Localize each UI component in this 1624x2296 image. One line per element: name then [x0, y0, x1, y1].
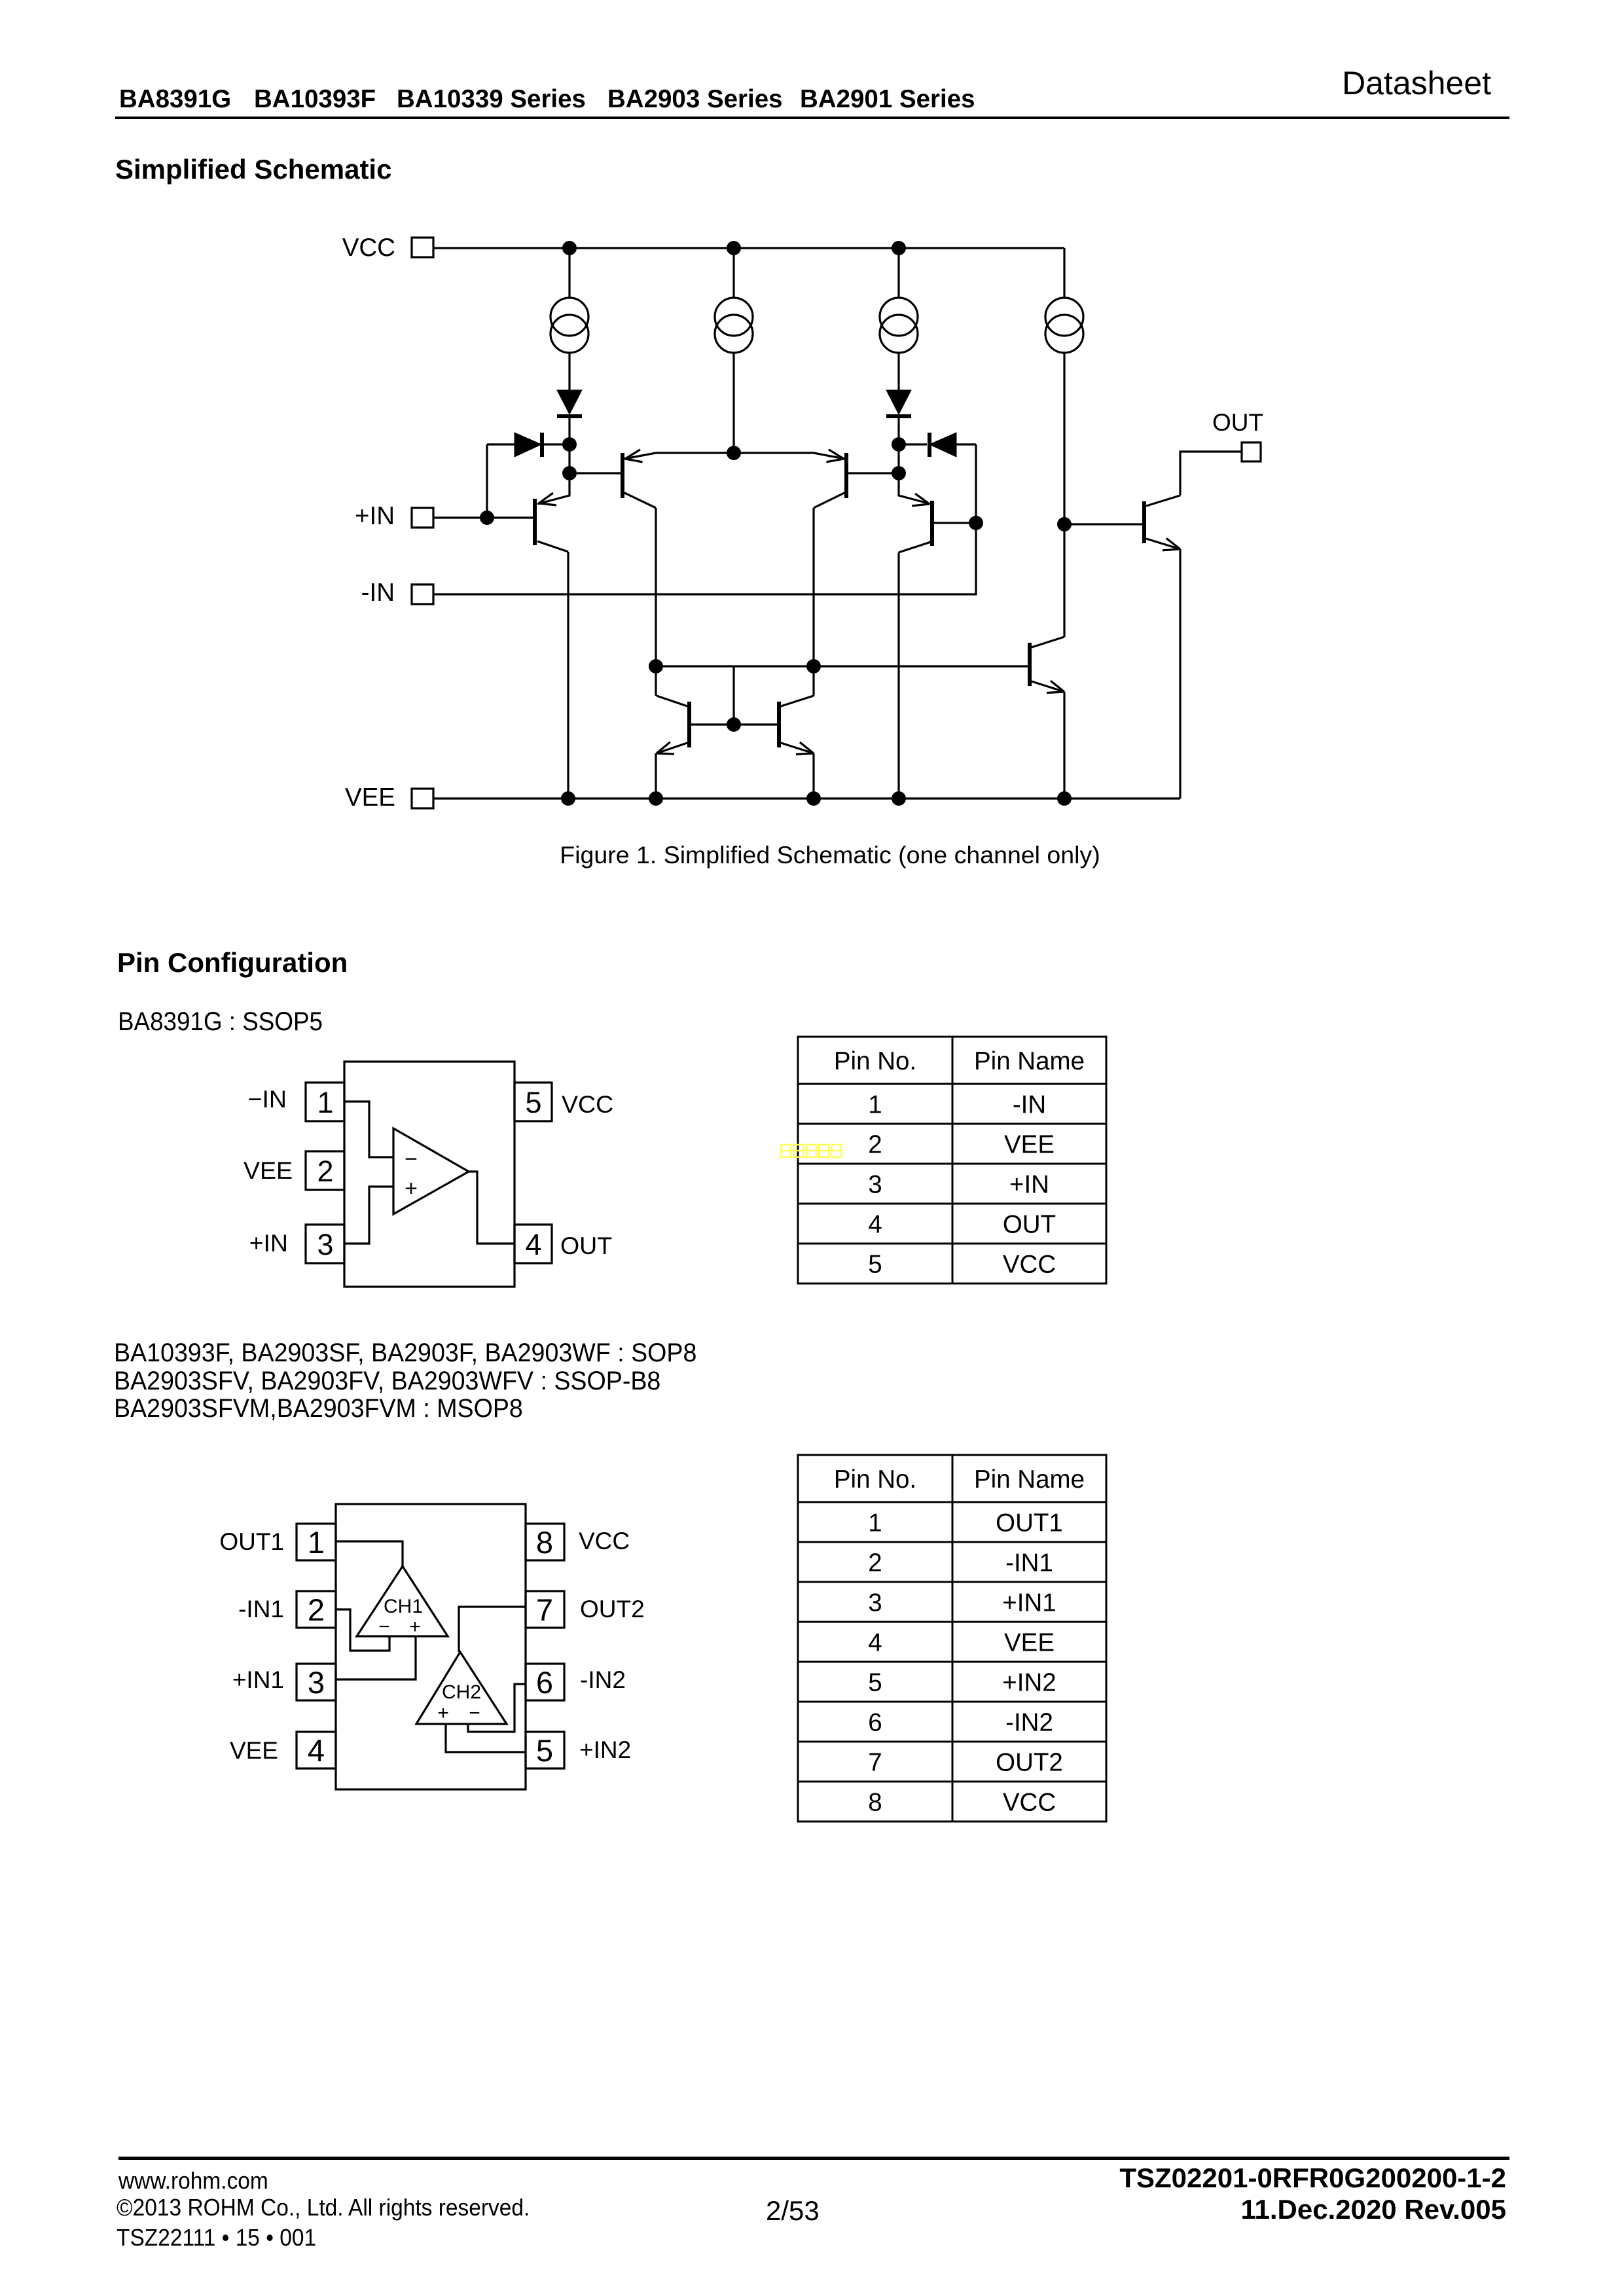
- pin 2 box: [306, 1151, 344, 1190]
- wire Q8 emitter: [1179, 549, 1181, 798]
- pin table row 2 VEE: [798, 1130, 1106, 1164]
- svg-text:5: 5: [525, 1086, 541, 1119]
- svg-text:Pin Name: Pin Name: [974, 1047, 1085, 1075]
- pin table row 1 OUT1: [798, 1509, 1106, 1542]
- op-amp CH1: [357, 1566, 448, 1638]
- svg-text:-IN1: -IN1: [238, 1596, 284, 1623]
- wire I1 top: [568, 248, 570, 298]
- footer www.rohm.com: [118, 2169, 268, 2193]
- svg-text:−: −: [378, 1616, 390, 1638]
- wire pin7 to CH2 output: [459, 1607, 526, 1652]
- svg-text:4: 4: [868, 1628, 882, 1657]
- terminal -IN: [361, 579, 433, 607]
- watermark: [781, 1145, 842, 1157]
- terminal VCC: [342, 234, 433, 262]
- svg-text:VCC: VCC: [562, 1090, 613, 1118]
- pin 5 box: [526, 1732, 564, 1768]
- svg-text:+: +: [409, 1616, 421, 1638]
- pin 3 box: [297, 1664, 336, 1700]
- wire Q8 base: [1064, 523, 1142, 525]
- wire Q2 collector: [655, 508, 657, 666]
- node -IN junction: [969, 516, 983, 530]
- svg-text:CH1: CH1: [384, 1596, 423, 1617]
- pin table column divider: [952, 1455, 954, 1821]
- wire Q3 emitter: [734, 452, 814, 454]
- svg-text:OUT: OUT: [1003, 1210, 1056, 1238]
- svg-text:OUT2: OUT2: [996, 1748, 1063, 1776]
- svg-text:5: 5: [868, 1668, 882, 1696]
- diode D2: [899, 433, 976, 457]
- node VEE-4: [892, 791, 906, 806]
- wire +IN to Q1 base: [433, 516, 533, 518]
- svg-text:+IN: +IN: [249, 1229, 288, 1257]
- svg-text:VEE: VEE: [1004, 1628, 1055, 1657]
- node +IN junction: [480, 511, 494, 525]
- svg-text:7: 7: [868, 1748, 882, 1776]
- wire Q5 collector: [655, 666, 657, 696]
- node VEE-3: [806, 791, 821, 806]
- node VCC-I2: [727, 241, 741, 255]
- svg-text:Figure 1. Simplified Schematic: Figure 1. Simplified Schematic (one chan…: [560, 841, 1100, 869]
- svg-text:1: 1: [308, 1525, 325, 1560]
- svg-text:-IN: -IN: [361, 579, 395, 607]
- transistor Q1: [533, 473, 569, 552]
- svg-text:2: 2: [868, 1130, 882, 1158]
- svg-text:3: 3: [868, 1588, 882, 1617]
- svg-text:OUT: OUT: [560, 1232, 612, 1259]
- wire I4 down: [1063, 352, 1065, 525]
- wire I3 to D4: [897, 352, 899, 391]
- wire pin3 to non-inverting input: [344, 1187, 393, 1244]
- svg-text:+IN2: +IN2: [579, 1736, 631, 1763]
- pin table row 5 +IN2: [798, 1668, 1106, 1702]
- pin 7 box: [526, 1591, 564, 1628]
- wire Q6 emitter: [812, 753, 814, 798]
- svg-text:2: 2: [317, 1155, 333, 1188]
- transistor Q5: [657, 696, 691, 754]
- pin table column divider: [952, 1037, 954, 1283]
- svg-text:4: 4: [525, 1228, 541, 1261]
- svg-text:3: 3: [308, 1665, 325, 1700]
- wire Q2 emitter: [656, 452, 734, 454]
- wire Q7 collector: [1063, 524, 1065, 637]
- transistor Q8: [1142, 495, 1180, 550]
- svg-text:6: 6: [868, 1708, 882, 1736]
- pin table header row: [798, 1465, 1106, 1502]
- wire pin5 to CH2 non-inverting: [446, 1724, 526, 1752]
- node C emitters: [727, 446, 741, 460]
- svg-text:8: 8: [536, 1525, 553, 1560]
- svg-text:+: +: [437, 1702, 449, 1724]
- svg-text:+IN1: +IN1: [232, 1666, 284, 1693]
- node A: [562, 437, 577, 452]
- diode D4: [886, 390, 911, 416]
- svg-text:5: 5: [536, 1733, 553, 1768]
- pin table row 3 +IN1: [798, 1588, 1106, 1622]
- current source I1: [550, 298, 588, 353]
- wire Q3 base: [848, 472, 899, 474]
- node VCC-I1: [562, 241, 577, 255]
- terminal VEE: [345, 783, 433, 812]
- node VEE-5: [1057, 791, 1072, 806]
- svg-text:CH2: CH2: [442, 1681, 481, 1703]
- svg-text:1: 1: [868, 1090, 882, 1119]
- diode D3: [557, 390, 582, 416]
- footer TSZ22111: [117, 2226, 316, 2250]
- pin table row 1 -IN: [798, 1090, 1106, 1124]
- pin 3 box: [306, 1225, 344, 1263]
- svg-text:VCC: VCC: [1003, 1250, 1056, 1278]
- pin table border: [798, 1037, 1106, 1283]
- svg-text:+: +: [405, 1176, 418, 1201]
- svg-text:2: 2: [868, 1549, 882, 1577]
- svg-text:VCC: VCC: [342, 234, 395, 262]
- svg-text:Pin Name: Pin Name: [974, 1465, 1085, 1494]
- wire -IN: [433, 523, 976, 594]
- svg-text:OUT1: OUT1: [219, 1528, 284, 1555]
- wire Q1 collector to VEE: [567, 552, 569, 798]
- svg-text:−IN: −IN: [248, 1085, 287, 1113]
- svg-text:8: 8: [868, 1788, 882, 1816]
- node H: [806, 659, 821, 673]
- pin 4 box: [297, 1732, 336, 1768]
- node VEE-2: [649, 791, 663, 806]
- op-amp CH2: [416, 1652, 507, 1724]
- transistor Q2: [621, 450, 656, 508]
- pin 8 box: [526, 1524, 564, 1560]
- svg-text:1: 1: [317, 1086, 333, 1119]
- svg-text:−: −: [405, 1147, 418, 1172]
- wire pin3 to CH1 non-inverting: [336, 1636, 416, 1679]
- header part numbers: [119, 87, 231, 113]
- svg-text:-IN2: -IN2: [580, 1666, 626, 1693]
- svg-text:7: 7: [536, 1592, 553, 1627]
- node VCC-I3: [892, 241, 906, 255]
- pin table row 5 VCC: [868, 1250, 1056, 1278]
- pin 5 box: [514, 1083, 552, 1121]
- header Datasheet: [1342, 67, 1491, 99]
- wire I3 top: [897, 248, 899, 298]
- wire Q3 collector: [812, 508, 814, 666]
- svg-text:6: 6: [536, 1665, 553, 1700]
- current source I2: [715, 298, 753, 353]
- current source I3: [880, 298, 918, 353]
- svg-text:Pin No.: Pin No.: [834, 1047, 916, 1075]
- pin table row 7 OUT2: [798, 1748, 1106, 1782]
- wire pin6 to CH2 inverting: [468, 1684, 526, 1732]
- footer revision: [1240, 2196, 1506, 2223]
- package body SOP8: [336, 1504, 526, 1789]
- footer page number: [766, 2197, 820, 2225]
- wire Q4 base: [934, 522, 976, 524]
- wire Q4 collector to VEE: [897, 552, 899, 798]
- wire D3 to node A: [568, 416, 570, 473]
- node G: [649, 659, 663, 673]
- node F: [1057, 517, 1072, 531]
- svg-text:2: 2: [308, 1592, 325, 1627]
- wire Q6 collector: [812, 666, 814, 696]
- op-amp U1: [393, 1128, 469, 1214]
- footer doc number: [1119, 2164, 1506, 2192]
- node E: [892, 466, 906, 480]
- wire Q2 base: [569, 472, 621, 474]
- pin 1 box: [297, 1524, 336, 1560]
- node D: [892, 437, 906, 452]
- pin table border: [798, 1455, 1106, 1821]
- svg-text:-IN: -IN: [1013, 1090, 1046, 1119]
- svg-text:+IN2: +IN2: [1002, 1668, 1056, 1696]
- svg-text:Pin No.: Pin No.: [834, 1465, 916, 1494]
- svg-text:-IN1: -IN1: [1005, 1549, 1053, 1577]
- pin table row 6 -IN2: [798, 1708, 1106, 1742]
- transistor Q7: [1028, 637, 1064, 693]
- current source I4: [1045, 298, 1083, 353]
- footer rule: [118, 2157, 1509, 2160]
- transistor Q6: [777, 696, 814, 755]
- pin table row 8 VCC: [868, 1788, 1056, 1816]
- wire D1 anode to +IN: [486, 444, 488, 518]
- svg-text:VEE: VEE: [244, 1157, 293, 1184]
- wire mirror collector left: [656, 665, 814, 667]
- wire VEE rail: [433, 797, 1180, 799]
- svg-text:VEE: VEE: [1004, 1130, 1055, 1158]
- pin table row 3 +IN: [798, 1170, 1106, 1204]
- svg-text:4: 4: [308, 1733, 325, 1768]
- header rule: [115, 117, 1509, 119]
- svg-text:+IN: +IN: [355, 502, 395, 530]
- svg-text:5: 5: [868, 1250, 882, 1278]
- wire VCC rail: [433, 247, 1064, 249]
- pin table row 2 -IN1: [798, 1549, 1106, 1582]
- wire mirror base link: [691, 723, 777, 725]
- wire D4 to node D: [897, 416, 899, 473]
- wire pin1 to inverting input: [344, 1102, 393, 1157]
- terminal OUT: [1212, 409, 1263, 461]
- svg-text:OUT: OUT: [1212, 409, 1263, 436]
- wire D2 anode down: [975, 444, 977, 523]
- wire Q5 emitter: [655, 753, 657, 798]
- wire mirror bases drop: [732, 666, 734, 725]
- node mirror bases: [727, 717, 741, 732]
- svg-text:VCC: VCC: [1003, 1788, 1056, 1816]
- wire I2 to emitters: [732, 352, 734, 453]
- package body SSOP5: [344, 1062, 514, 1287]
- node B: [562, 466, 577, 480]
- wire Q8 collector to OUT: [1180, 452, 1242, 495]
- pin 1 box: [306, 1083, 344, 1121]
- pin 2 box: [297, 1591, 336, 1628]
- svg-text:VCC: VCC: [579, 1528, 630, 1554]
- svg-text:VEE: VEE: [345, 783, 395, 812]
- heading Simplified Schematic: [115, 156, 391, 183]
- svg-text:VEE: VEE: [230, 1737, 278, 1764]
- pin table row 4 VEE: [798, 1628, 1106, 1662]
- svg-text:4: 4: [868, 1210, 882, 1238]
- wire op-amp output to pin4: [469, 1172, 514, 1244]
- svg-text:3: 3: [868, 1170, 882, 1198]
- svg-text:OUT2: OUT2: [580, 1596, 645, 1623]
- wire I2 top: [732, 248, 734, 298]
- transistor Q3: [814, 450, 848, 508]
- wire I1 to D3: [568, 352, 570, 391]
- wire Q7 emitter: [1063, 692, 1065, 798]
- subheading BA8391G SSOP5: [118, 1009, 323, 1035]
- svg-text:3: 3: [317, 1228, 333, 1261]
- pin table row 4 OUT: [798, 1210, 1106, 1244]
- subheading SOP8 list: [114, 1339, 696, 1423]
- svg-text:−: −: [469, 1702, 480, 1724]
- svg-text:OUT1: OUT1: [996, 1509, 1063, 1537]
- transistor Q4: [899, 473, 934, 552]
- heading Pin Configuration: [117, 949, 348, 977]
- pin 6 box: [526, 1664, 564, 1700]
- diode D1: [487, 433, 563, 457]
- pin 4 box: [514, 1225, 552, 1263]
- node VEE-1: [561, 791, 575, 806]
- wire pin1 to CH1 output: [336, 1541, 403, 1566]
- wire pin2 to CH1 inverting: [336, 1609, 389, 1651]
- footer copyright: [117, 2196, 530, 2219]
- svg-text:+IN: +IN: [1009, 1170, 1049, 1198]
- svg-text:1: 1: [868, 1509, 882, 1537]
- pin table header row: [798, 1047, 1106, 1084]
- svg-text:-IN2: -IN2: [1005, 1708, 1053, 1736]
- wire I4 top: [1063, 248, 1065, 298]
- svg-text:+IN1: +IN1: [1002, 1588, 1056, 1617]
- wire Q7 base: [814, 665, 1028, 667]
- terminal +IN: [355, 502, 433, 530]
